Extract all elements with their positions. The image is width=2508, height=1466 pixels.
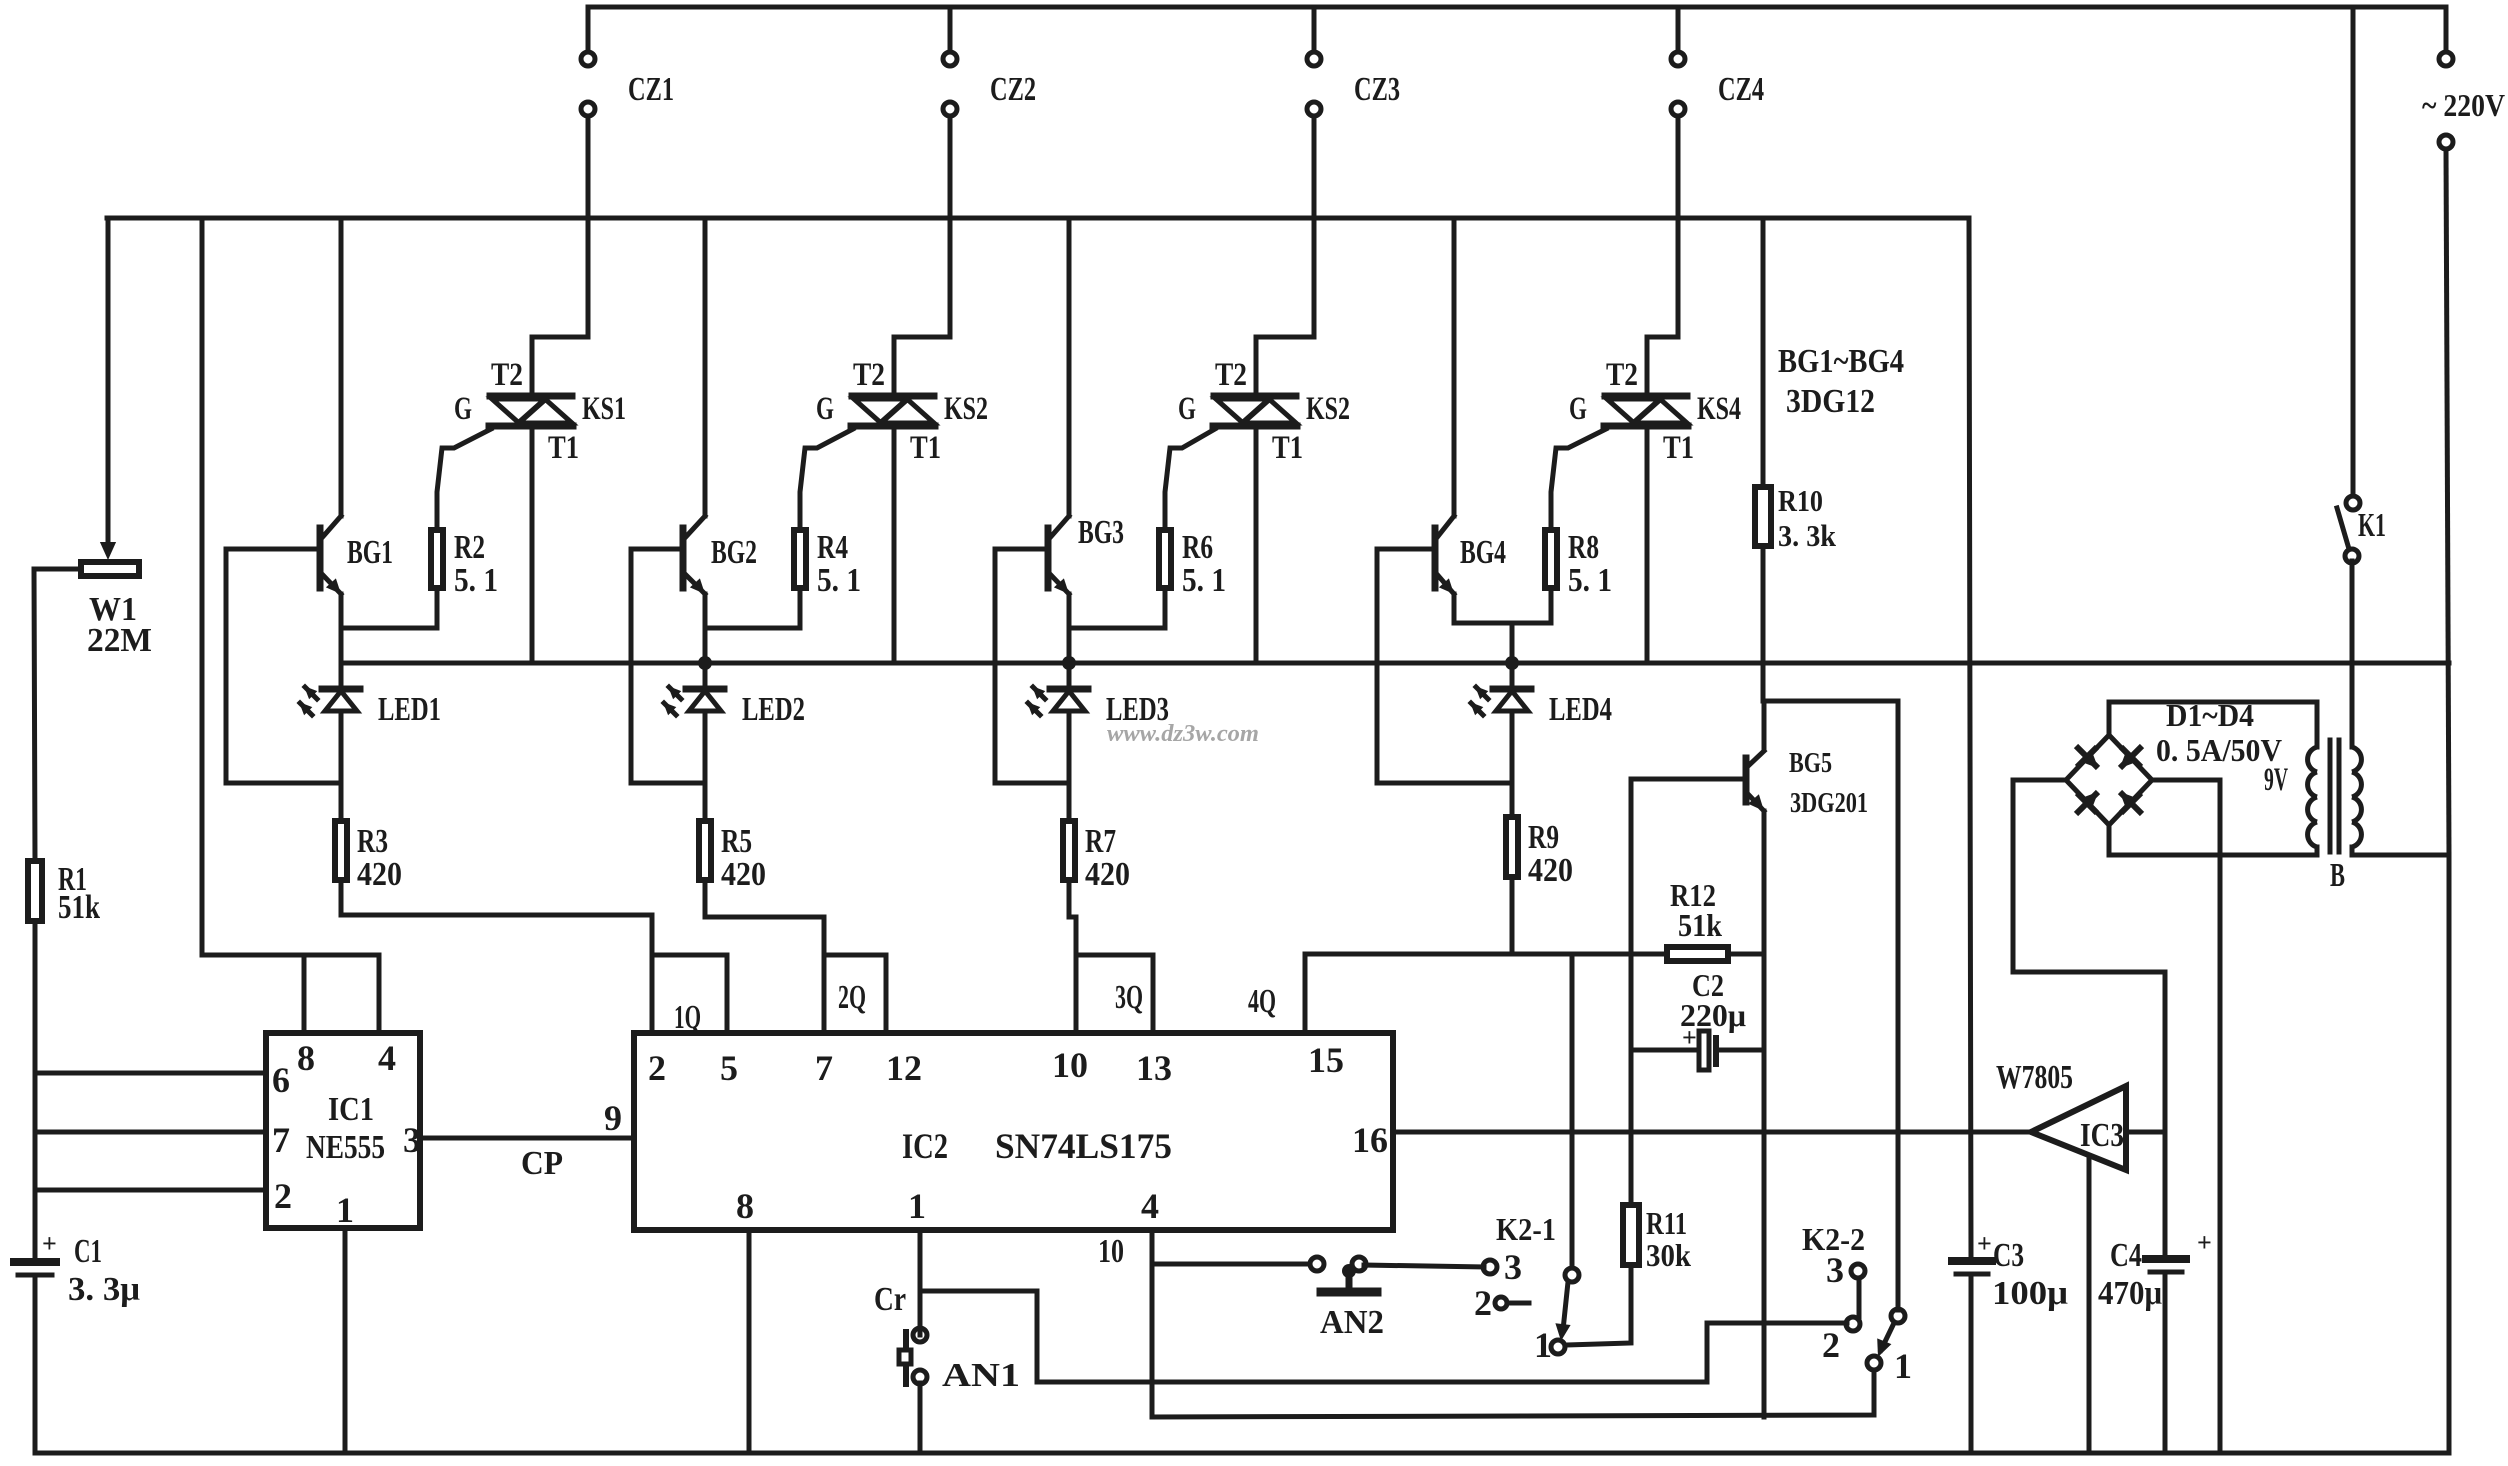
wire neutral/emitter rail y=663 bbox=[341, 661, 2449, 666]
svg-text:51k: 51k bbox=[58, 889, 100, 926]
resistor R9 420 bbox=[1510, 783, 1515, 817]
svg-text:10: 10 bbox=[1052, 1045, 1088, 1085]
wire collector of BG4 from bus bbox=[1452, 218, 1457, 516]
wire IC2 pin4 down bbox=[1150, 1230, 1155, 1417]
svg-text:BG4: BG4 bbox=[1460, 534, 1506, 571]
push button AN1 bbox=[899, 1328, 927, 1453]
wire emitter of BG3 to rail bbox=[1067, 628, 1072, 663]
svg-text:R5: R5 bbox=[721, 823, 752, 860]
svg-text:3DG12: 3DG12 bbox=[1786, 383, 1875, 420]
svg-text:C4: C4 bbox=[2110, 1237, 2142, 1274]
svg-text:51k: 51k bbox=[1678, 907, 1722, 943]
svg-text:B: B bbox=[2330, 857, 2345, 894]
wire top rail down to K1 bbox=[2351, 7, 2356, 496]
wire to IC1 pin7 bbox=[35, 1130, 266, 1135]
transistor BG3 bbox=[1048, 516, 1069, 594]
svg-text:13: 13 bbox=[1136, 1048, 1172, 1088]
resistor R8 5. 1 bbox=[1545, 530, 1557, 588]
triac KS2 (KS2) bbox=[851, 396, 935, 426]
wire K2-2 terminal 1 to IC2 pin4 line bbox=[1152, 1370, 1874, 1417]
wire emitter of BG4 and R8 bottom bbox=[1454, 588, 1551, 623]
svg-text:2: 2 bbox=[274, 1176, 292, 1216]
wire bridge DC+ jog to C4 column bbox=[2013, 780, 2165, 972]
svg-text:2: 2 bbox=[1474, 1283, 1492, 1323]
wire emitter of BG1 to rail bbox=[339, 628, 344, 663]
svg-text:AN2: AN2 bbox=[1320, 1304, 1384, 1341]
svg-text:C1: C1 bbox=[74, 1233, 102, 1270]
svg-text:+: + bbox=[42, 1229, 57, 1258]
svg-text:3. 3k: 3. 3k bbox=[1778, 518, 1837, 553]
svg-text:G: G bbox=[454, 391, 472, 427]
svg-text:CZ1: CZ1 bbox=[628, 71, 674, 108]
wire CZ4 to triac T2 step bbox=[1647, 116, 1678, 392]
capacitor C3 100u electrolytic bbox=[1952, 1229, 1992, 1274]
svg-text:5. 1: 5. 1 bbox=[1568, 562, 1612, 599]
svg-text:K2-1: K2-1 bbox=[1496, 1211, 1556, 1247]
wire C4 bottom to ground rail bbox=[2163, 1273, 2168, 1453]
wire 3Q bracket pins 10-13 bbox=[1076, 955, 1153, 1033]
wire node LED3 cathode / base feed junction bbox=[995, 781, 1069, 786]
svg-text:5. 1: 5. 1 bbox=[454, 562, 498, 599]
svg-text:R7: R7 bbox=[1085, 823, 1116, 860]
svg-text:30k: 30k bbox=[1646, 1237, 1691, 1273]
wire node LED2 cathode / base feed junction bbox=[631, 781, 705, 786]
wire transformer primary bottom to 220V neutral bbox=[2352, 853, 2449, 858]
wire BG5 collector up bbox=[1762, 701, 1767, 748]
svg-text:470μ: 470μ bbox=[2098, 1275, 2162, 1312]
wire C1 bottom to ground rail bbox=[33, 1276, 38, 1453]
svg-text:2: 2 bbox=[1822, 1325, 1840, 1365]
wire IC3 ground pin to rail bbox=[2087, 1157, 2092, 1453]
wire node LED4 cathode / base feed junction bbox=[1377, 781, 1512, 786]
svg-text:KS2: KS2 bbox=[944, 391, 988, 427]
socket CZ1 bbox=[581, 7, 595, 116]
svg-text:+: + bbox=[2197, 1228, 2212, 1257]
svg-text:5: 5 bbox=[720, 1048, 738, 1088]
wire R12 left lead bbox=[1631, 952, 1667, 957]
svg-text:BG5: BG5 bbox=[1789, 747, 1832, 779]
voltage regulator IC3 W7805 (triangle) bbox=[2031, 1086, 2126, 1170]
wire CZ2 to triac T2 step bbox=[894, 116, 950, 392]
svg-text:IC2: IC2 bbox=[902, 1126, 948, 1166]
svg-text:3: 3 bbox=[1826, 1250, 1844, 1290]
svg-text:15: 15 bbox=[1308, 1040, 1344, 1080]
wire collector of BG3 from bus bbox=[1067, 218, 1072, 516]
wire IC2 pin15 stub bbox=[1303, 954, 1308, 1033]
wire collector of BG1 from bus bbox=[339, 218, 344, 516]
socket CZ2 bbox=[943, 7, 957, 116]
resistor R5 420 bbox=[703, 783, 708, 821]
wire triac T1 of channel 1 down to rail bbox=[530, 426, 535, 663]
svg-text:AN1: AN1 bbox=[942, 1357, 1020, 1394]
wire IC1 pin4 stub bbox=[377, 955, 382, 1033]
svg-text:G: G bbox=[1178, 391, 1196, 427]
LED LED4 bbox=[1470, 663, 1531, 783]
svg-text:T2: T2 bbox=[1215, 357, 1247, 393]
wire 1Q bracket pins 2-5 bbox=[652, 955, 727, 1033]
svg-text:BG3: BG3 bbox=[1078, 514, 1124, 551]
svg-text:1: 1 bbox=[908, 1186, 926, 1226]
LED LED2 bbox=[663, 663, 724, 783]
svg-text:T2: T2 bbox=[1606, 357, 1638, 393]
svg-text:3Q: 3Q bbox=[1115, 979, 1143, 1016]
svg-text:www.dz3w.com: www.dz3w.com bbox=[1107, 721, 1259, 747]
wire R10 bottom to BG5 collector node bbox=[1761, 546, 1766, 701]
wire K1 to transformer primary top bbox=[2350, 562, 2355, 747]
svg-text:T1: T1 bbox=[1272, 430, 1303, 466]
wire to IC1 pin6 bbox=[35, 1071, 266, 1076]
svg-text:6: 6 bbox=[272, 1060, 290, 1100]
wire gate of KS4 via R8 bbox=[1551, 429, 1606, 530]
wire CZ1 to triac T2 step bbox=[532, 116, 588, 392]
wire emitter of BG1 and R2 bottom bbox=[341, 588, 437, 628]
svg-text:T1: T1 bbox=[548, 430, 579, 466]
wire base feed of BG4 bbox=[1377, 549, 1435, 783]
resistor R6 5. 1 bbox=[1159, 530, 1171, 588]
wire 2Q bracket pins 7-12 bbox=[824, 955, 886, 1033]
svg-text:SN74LS175: SN74LS175 bbox=[995, 1126, 1172, 1166]
svg-text:IC1: IC1 bbox=[328, 1091, 374, 1128]
triac KS1 (KS1) bbox=[489, 396, 573, 426]
wire to IC1 pin2 bbox=[35, 1188, 266, 1193]
svg-text:W7805: W7805 bbox=[1996, 1059, 2073, 1096]
switch K2-1 bbox=[1483, 1260, 1579, 1354]
wire IC3 input from C4 column bbox=[2126, 1130, 2165, 1135]
svg-text:R10: R10 bbox=[1778, 483, 1823, 518]
resistor R1 51k bbox=[28, 861, 42, 921]
wire R10 top from bus bbox=[1761, 218, 1766, 487]
bridge rectifier D1~D4 0.5A/50V bbox=[2066, 735, 2152, 825]
wire node LED1 cathode / base feed junction bbox=[226, 781, 341, 786]
svg-text:8: 8 bbox=[736, 1186, 754, 1226]
wire R3 bottom to IC2 pin2 bbox=[341, 880, 652, 1033]
wire DC+ column down to C4 bbox=[2163, 972, 2168, 1255]
svg-text:420: 420 bbox=[1528, 852, 1573, 889]
svg-text:T2: T2 bbox=[491, 357, 523, 393]
svg-text:220μ: 220μ bbox=[1680, 997, 1746, 1033]
wire CZ3 to triac T2 step bbox=[1256, 116, 1314, 392]
svg-text:LED2: LED2 bbox=[742, 691, 805, 728]
transistor BG2 bbox=[683, 516, 705, 594]
svg-text:T2: T2 bbox=[853, 357, 885, 393]
wire 220V neutral down right edge bbox=[2446, 149, 2449, 855]
svg-text:4Q: 4Q bbox=[1248, 983, 1276, 1020]
wire R9 bottom to 4Q rail bbox=[1510, 877, 1515, 954]
wire main bus (+) rail y=218 bbox=[107, 216, 1969, 221]
wire bridge AC2 to transformer secondary bottom bbox=[2109, 825, 2315, 855]
IC U2: IC2 SN74LS175 box bbox=[634, 1033, 1393, 1230]
wire R12-C2 left column bbox=[1629, 954, 1634, 1073]
wire R5 bottom to IC2 pin7 bbox=[705, 880, 824, 1033]
svg-text:1: 1 bbox=[336, 1190, 354, 1230]
svg-text:R6: R6 bbox=[1182, 529, 1213, 566]
wire emitter of BG2 to rail bbox=[703, 628, 708, 663]
svg-text:T1: T1 bbox=[910, 430, 941, 466]
wire BG5 emitter column down (R12/C2 right) to Cr line bbox=[1762, 811, 1767, 1417]
wire triac T1 of channel 2 down to rail bbox=[892, 426, 897, 663]
svg-text:2: 2 bbox=[648, 1048, 666, 1088]
wire triac T1 of channel 4 down to rail bbox=[1645, 426, 1650, 663]
transistor BG1 bbox=[320, 516, 341, 594]
svg-text:Cr: Cr bbox=[874, 1281, 906, 1318]
svg-text:CZ4: CZ4 bbox=[1718, 71, 1764, 108]
svg-text:7: 7 bbox=[272, 1120, 290, 1160]
wire R7 bottom to IC2 pin10 bbox=[1069, 880, 1076, 1033]
svg-text:3: 3 bbox=[1504, 1247, 1522, 1287]
resistor R7 420 bbox=[1067, 783, 1072, 821]
transformer B 9V bbox=[2308, 561, 2362, 855]
wire emitter of BG3 and R6 bottom bbox=[1069, 588, 1165, 628]
push button AN2 bbox=[1310, 1257, 1377, 1292]
svg-text:22M: 22M bbox=[87, 622, 152, 659]
LED LED3 bbox=[1027, 663, 1088, 783]
wire C3 bottom to ground rail bbox=[1969, 1275, 1974, 1453]
junction dot at LED2 anode / rail bbox=[698, 656, 712, 670]
wire top 220V live rail bbox=[588, 5, 2446, 10]
svg-text:5. 1: 5. 1 bbox=[817, 562, 861, 599]
svg-text:3. 3μ: 3. 3μ bbox=[68, 1271, 140, 1308]
wire R12 right lead bbox=[1728, 952, 1764, 957]
wire triac T1 of channel 3 down to rail bbox=[1254, 426, 1259, 663]
wire collector of BG2 from bus bbox=[703, 218, 708, 516]
svg-text:KS1: KS1 bbox=[582, 391, 626, 427]
svg-text:R3: R3 bbox=[357, 823, 388, 860]
socket CZ3 bbox=[1307, 7, 1321, 116]
svg-text:NE555: NE555 bbox=[306, 1129, 385, 1166]
wire gate of KS1 via R2 bbox=[437, 429, 491, 530]
svg-text:CZ3: CZ3 bbox=[1354, 71, 1400, 108]
svg-text:12: 12 bbox=[886, 1048, 922, 1088]
wire base feed of BG2 bbox=[631, 549, 683, 783]
terminal ~220V bbox=[2439, 7, 2453, 149]
svg-text:C3: C3 bbox=[1993, 1237, 2024, 1274]
svg-text:BG2: BG2 bbox=[711, 534, 757, 571]
svg-text:R11: R11 bbox=[1646, 1205, 1687, 1241]
svg-text:+: + bbox=[1977, 1229, 1992, 1258]
svg-text:R4: R4 bbox=[817, 529, 848, 566]
socket CZ4 bbox=[1671, 7, 1685, 116]
wire bus right end down to C3 bbox=[1969, 218, 1971, 1256]
resistor R11 30k bbox=[1623, 1205, 1639, 1265]
wire emitter of BG2 and R4 bottom bbox=[705, 588, 800, 628]
svg-text:7: 7 bbox=[815, 1048, 833, 1088]
capacitor C2 220u (horizontal electrolytic) bbox=[1631, 1023, 1764, 1070]
svg-text:1: 1 bbox=[1894, 1346, 1912, 1386]
svg-text:IC3: IC3 bbox=[2080, 1117, 2124, 1154]
transistor BG5 3DG201 bbox=[1631, 751, 1764, 811]
switch K1 bbox=[2337, 496, 2360, 563]
junction dot at LED3 anode / rail bbox=[1062, 656, 1076, 670]
wire BG5 collector to K2-2 pole bbox=[1764, 701, 1898, 1310]
svg-text:T1: T1 bbox=[1663, 430, 1694, 466]
potentiometer W1 22M bbox=[81, 218, 139, 576]
wire AN2 to K2-1 terminal 3 bbox=[1364, 1265, 1484, 1267]
svg-text:10: 10 bbox=[1098, 1233, 1124, 1270]
LED LED1 bbox=[299, 663, 360, 783]
op-amp/timer IC1 NE555 box bbox=[266, 1033, 420, 1228]
svg-text:1: 1 bbox=[1534, 1325, 1552, 1365]
svg-text:G: G bbox=[816, 391, 834, 427]
svg-text:2Q: 2Q bbox=[838, 979, 866, 1016]
wire bridge DC- down to ground rail bbox=[2152, 780, 2220, 1453]
resistor R2 5. 1 bbox=[431, 530, 443, 588]
wire K2-1 pole up to 4Q rail bbox=[1570, 954, 1575, 1268]
wire emitter node to rail (channel 4) bbox=[1510, 623, 1515, 663]
wire gate of KS3 via R6 bbox=[1165, 429, 1215, 530]
svg-text:R9: R9 bbox=[1528, 819, 1559, 856]
svg-text:4: 4 bbox=[378, 1038, 396, 1078]
resistor R3 420 bbox=[339, 783, 344, 821]
wire gate of KS2 via R4 bbox=[800, 429, 853, 530]
svg-text:CP: CP bbox=[521, 1145, 563, 1182]
wire IC2 pin1 down to AN1 bbox=[918, 1230, 923, 1335]
wire bridge AC1 to transformer secondary top bbox=[2109, 702, 2317, 735]
svg-text:8: 8 bbox=[297, 1038, 315, 1078]
svg-text:K1: K1 bbox=[2358, 507, 2386, 544]
capacitor C4 470u electrolytic bbox=[2146, 1228, 2212, 1272]
triac KS2 (KS3) bbox=[1213, 396, 1297, 426]
svg-text:BG1~BG4: BG1~BG4 bbox=[1778, 343, 1904, 380]
svg-text:LED4: LED4 bbox=[1549, 691, 1612, 728]
wire 4Q rail pin15 to R12 column bbox=[1305, 952, 1631, 957]
svg-text:LED1: LED1 bbox=[378, 691, 441, 728]
wire pin4 column to AN2 bbox=[1152, 1262, 1310, 1267]
switch K2-2 bbox=[1846, 1264, 1905, 1370]
wire base feed of BG3 bbox=[995, 549, 1048, 783]
wire base feed of BG1 bbox=[226, 549, 320, 783]
svg-text:CZ2: CZ2 bbox=[990, 71, 1036, 108]
svg-text:KS2: KS2 bbox=[1306, 391, 1350, 427]
wire bus drop to IC1 pins 8 and 4 bbox=[202, 218, 379, 955]
resistor R4 5. 1 bbox=[794, 530, 806, 588]
wire BG5 base column (R12/C2 left) bbox=[1629, 779, 1634, 954]
wire W1 left arm down to R1 bbox=[34, 569, 81, 861]
wire R1 bottom to C1 bbox=[33, 921, 38, 1256]
wire R11 bottom to K2-1 terminal 1 bbox=[1565, 1265, 1631, 1345]
triac KS4 (KS4) bbox=[1604, 396, 1688, 426]
svg-text:~ 220V: ~ 220V bbox=[2422, 87, 2505, 123]
wire bottom ground rail bbox=[37, 1451, 2449, 1456]
svg-text:100μ: 100μ bbox=[1992, 1275, 2068, 1312]
svg-text:5. 1: 5. 1 bbox=[1182, 562, 1226, 599]
svg-text:R8: R8 bbox=[1568, 529, 1599, 566]
capacitor C1 3.3u electrolytic bbox=[14, 1229, 57, 1275]
wire IC1 pin1 to ground rail bbox=[343, 1228, 348, 1453]
svg-text:420: 420 bbox=[1085, 856, 1130, 893]
svg-text:4: 4 bbox=[1141, 1186, 1159, 1226]
wire IC2 pin16 to IC3 output (+5V) bbox=[1393, 1130, 2031, 1135]
resistor R12 51k (horizontal) bbox=[1667, 947, 1728, 961]
wire IC1 pin3 to IC2 pin9 (CP) bbox=[420, 1136, 634, 1141]
svg-text:KS4: KS4 bbox=[1697, 391, 1741, 427]
svg-text:R2: R2 bbox=[454, 529, 485, 566]
svg-text:G: G bbox=[1569, 391, 1587, 427]
wire IC2 pin8 to ground rail bbox=[747, 1230, 752, 1453]
junction dot at LED4 anode / rail bbox=[1505, 656, 1519, 670]
wire Cr line from pin1 to K2-2 terminal 2 bbox=[920, 1291, 1847, 1382]
transistor BG4 bbox=[1435, 516, 1454, 594]
svg-text:3DG201: 3DG201 bbox=[1790, 787, 1868, 819]
svg-text:420: 420 bbox=[721, 856, 766, 893]
svg-text:9: 9 bbox=[604, 1098, 622, 1138]
wire right edge down to ground rail bbox=[2447, 855, 2452, 1453]
wire R12/C2 left column down to R11 bbox=[1629, 1070, 1634, 1205]
svg-text:BG1: BG1 bbox=[347, 534, 393, 571]
svg-text:9V: 9V bbox=[2264, 762, 2288, 798]
resistor R10 3.3k bbox=[1755, 487, 1771, 546]
svg-text:16: 16 bbox=[1352, 1120, 1388, 1160]
svg-text:420: 420 bbox=[357, 856, 402, 893]
wire IC1 pin8 stub bbox=[302, 955, 307, 1033]
